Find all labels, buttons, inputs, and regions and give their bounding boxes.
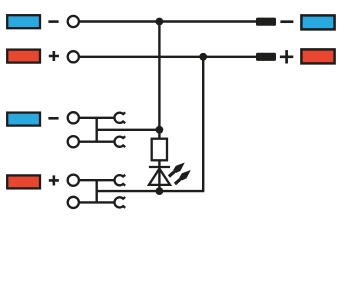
junction dot node C (tap / V1 / resistor top) (156, 126, 164, 134)
plus label row 2 right (280, 50, 293, 63)
LED triangle (149, 169, 170, 185)
bridge bar red group (95, 180, 97, 202)
minus label row 1 right (280, 20, 293, 23)
wire resistor to LED (158, 160, 160, 191)
clamp point circle row 3 (68, 112, 79, 123)
clamp point circle row 2 (68, 51, 79, 62)
terminal block marker 1 (blue, left row 1) (7, 15, 40, 28)
wire row 5 to spring contact (80, 179, 115, 181)
junction dot node D (LED bottom / return wire) (156, 187, 164, 195)
terminal block marker 5 (blue, left row 3) (7, 113, 40, 126)
terminal block marker 2 (blue, right row 1) (301, 15, 334, 29)
ferrule row 1 (black) (256, 18, 276, 26)
wire bottom return (red tap to V2 corner) (97, 190, 205, 192)
wire resistor top lead (158, 130, 160, 138)
bridge bar blue group (95, 118, 97, 142)
terminal block marker 3 (red, left row 2) (7, 50, 40, 63)
minus label row 1 left (48, 20, 58, 23)
wire V2 vertical from row2 down to LED return (202, 57, 204, 191)
LED light arrow 1 (167, 160, 187, 179)
LED cathode bar (149, 166, 170, 168)
resistor R (152, 139, 167, 161)
spring contact C row 5 (114, 175, 125, 186)
ferrule row 2 (black) (256, 53, 276, 61)
wire V1 vertical from row1 to resistor tap (158, 22, 160, 132)
terminal block marker 6 (red, left row 5) (7, 175, 40, 188)
wire row 4 to spring contact (80, 140, 115, 142)
spring contact C row 6 (114, 197, 125, 208)
plus label row 5 (49, 175, 59, 185)
plus label row 2 left (49, 51, 59, 61)
clamp point circle row 5 (68, 175, 79, 186)
spring contact C row 4 (114, 136, 125, 147)
minus label row 3 (48, 117, 58, 120)
wire row 2 horizontal (80, 56, 258, 58)
LED light arrow 2 (173, 167, 193, 186)
wire tap blue group to resistor (97, 129, 160, 131)
clamp point circle row 4 (68, 136, 79, 147)
wire row 6 to spring contact (80, 201, 115, 203)
spring contact C row 3 (114, 112, 125, 123)
junction dot node A (row1 / V1) (156, 18, 164, 26)
wire row 3 to spring contact (80, 117, 115, 119)
clamp point circle row 1 (68, 16, 79, 27)
wire row 1 horizontal (80, 20, 258, 22)
junction dot node B (row2 / V2) (199, 53, 207, 61)
clamp point circle row 6 (68, 197, 79, 208)
terminal block marker 4 (red, right row 2) (301, 49, 334, 63)
